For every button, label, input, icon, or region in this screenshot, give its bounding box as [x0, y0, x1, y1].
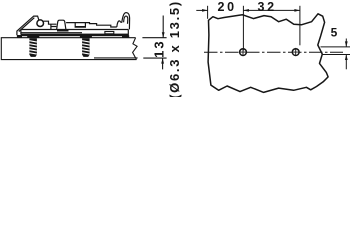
euro screw 2 threads [82, 38, 90, 57]
base mid line [21, 32, 82, 34]
svg-text:(Ø6.3 x 13.5): (Ø6.3 x 13.5) [167, 0, 182, 97]
euro screw 1 threads [29, 38, 37, 57]
panel cross-section left figure [1, 38, 136, 60]
dimension lines top [196, 6, 300, 51]
svg-text:5: 5 [331, 26, 338, 40]
hole 2 [292, 49, 299, 56]
step block after circle [43, 21, 56, 29]
arrow right at L3 [294, 9, 300, 12]
mounting plate side view [17, 13, 130, 37]
wedge foot [17, 35, 22, 38]
wedge outer incline [17, 16, 39, 31]
wedge left vertical [16, 31, 18, 35]
L1 extension [207, 6, 209, 19]
base right vertical [127, 29, 129, 36]
L2 extension down to hole 1 [242, 6, 244, 51]
arm top edge [66, 23, 117, 27]
32 dimension line [243, 9, 300, 11]
hole 1 [240, 49, 247, 56]
raised blip on base [105, 32, 114, 34]
arrow left at L2 [243, 9, 249, 12]
svg-text:20: 20 [218, 0, 237, 14]
hole 2 crosshair [292, 48, 299, 56]
drilling depth line [94, 57, 138, 59]
hook inner curl [124, 16, 128, 24]
base top line [21, 29, 128, 31]
hook [117, 13, 130, 30]
slot bottom thick [75, 26, 85, 27]
wedge inner line [19, 18, 35, 32]
arrow right at L1 [202, 9, 208, 12]
break line zigzag [133, 38, 138, 60]
dim 13 top extension line [142, 37, 166, 39]
20 left outside stem [196, 9, 207, 11]
screw head 2 [80, 35, 92, 37]
boss flare [57, 30, 69, 32]
base dark band [21, 34, 128, 37]
dim 13 bottom extension line [143, 57, 166, 59]
svg-text:13: 13 [152, 39, 167, 57]
dim 13 arrow stems [162, 16, 165, 70]
screw head 1 [27, 35, 39, 37]
circle hole in wedge [37, 20, 44, 27]
slot [75, 23, 85, 28]
L3 extension [299, 6, 301, 46]
right foot [122, 35, 129, 37]
base left vertical [20, 30, 22, 35]
dim 13 arrowheads [161, 32, 164, 63]
centerline dash-dot [204, 51, 343, 53]
boss [57, 20, 66, 29]
svg-text:32: 32 [258, 0, 277, 14]
dim 5 [321, 39, 350, 70]
hole 1 crosshair [240, 49, 247, 56]
right figure: panel blob outline [208, 14, 328, 93]
